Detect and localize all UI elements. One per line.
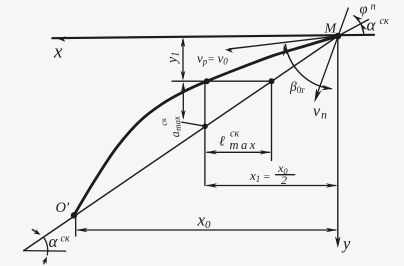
svg-text:ск: ск	[61, 234, 70, 245]
svg-text:x1 =: x1 =	[249, 168, 270, 184]
svg-text:2: 2	[281, 173, 287, 187]
alpha top arc arrowhead	[360, 23, 367, 32]
svg-text:x: x	[53, 42, 63, 63]
x0 dimension line	[78, 229, 336, 231]
x1 dimension line	[207, 185, 336, 187]
svg-text:max: max	[230, 138, 258, 152]
alpha bottom upper arrowhead	[33, 229, 40, 235]
y1 dimension line	[182, 40, 184, 78]
fraction bar	[276, 174, 295, 176]
alpha bottom lower arrow tail	[44, 259, 46, 264]
a_max connector to chord dot	[182, 122, 205, 126]
svg-text:y: y	[341, 234, 351, 253]
svg-text:O′: O′	[56, 200, 70, 216]
a_max dimension line	[182, 84, 184, 118]
chord line O-prime to M	[24, 36, 338, 251]
point M	[334, 33, 341, 40]
y-axis	[337, 36, 339, 244]
horizontal line through vertex	[172, 80, 272, 82]
alpha bottom lower arrowhead	[42, 257, 47, 264]
alpha bottom arc	[44, 237, 48, 255]
point O-prime	[71, 212, 77, 218]
l_max left arrowhead	[206, 150, 218, 154]
v_p vector shaft	[229, 36, 338, 49]
x1 right arrowhead	[326, 183, 338, 187]
svg-text:M: M	[324, 22, 338, 37]
dot trajectory vertex	[204, 78, 210, 84]
v_n vector line through M	[316, 8, 348, 97]
l_max dimension line	[207, 151, 270, 153]
v_n arrowhead	[314, 88, 322, 102]
dot on chord right	[269, 78, 275, 84]
svg-text:n: n	[371, 2, 376, 13]
x1 left arrowhead	[206, 183, 218, 187]
a_max bottom arrowhead	[181, 110, 186, 120]
y1 bottom arrowhead	[181, 71, 186, 81]
x0 left arrowhead	[76, 228, 88, 232]
a_max top arrowhead	[181, 82, 186, 92]
svg-text:ℓ: ℓ	[219, 135, 225, 150]
svg-text:ск: ск	[380, 16, 389, 27]
v_p arrowhead	[225, 48, 234, 53]
beta arc arrowhead upper	[283, 44, 289, 56]
trajectory curve	[74, 36, 338, 215]
chord extension beyond M	[338, 20, 369, 37]
y-axis arrowhead	[335, 237, 341, 249]
vertical extension line left	[204, 81, 206, 185]
y1 top arrowhead	[181, 37, 186, 47]
x0 right arrowhead	[326, 228, 338, 232]
bottom horizontal reference at vertex	[24, 250, 66, 253]
beta_0g arc	[285, 44, 331, 89]
x-axis	[52, 35, 374, 38]
phi and alpha arc top right	[353, 15, 363, 34]
dot on chord at x1	[202, 124, 208, 130]
alpha bottom upper arrow tail	[32, 230, 37, 233]
beta arc arrowhead lower	[322, 85, 333, 90]
phi arc arrowhead	[353, 15, 362, 23]
x-axis arrowhead	[58, 36, 66, 41]
x0 dimension tick below O-prime	[75, 219, 77, 237]
l_max right arrowhead	[260, 150, 272, 154]
vertical extension line right	[271, 81, 273, 160]
svg-text:α: α	[49, 232, 59, 251]
svg-text:α: α	[367, 16, 377, 35]
